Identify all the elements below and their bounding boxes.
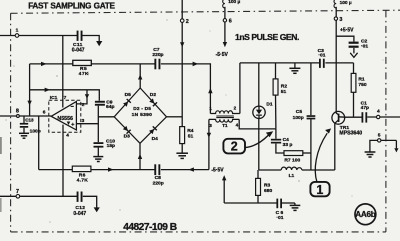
wire C5 to L1 junction	[310, 119, 312, 170]
svg-text:-5·5V: -5·5V	[211, 168, 224, 174]
flow arrow bridge top up	[138, 74, 142, 79]
svg-text:100 µ: 100 µ	[228, 0, 240, 5]
wire input node 8 feed	[0, 115, 51, 117]
wire IC1 pin3 out	[76, 123, 98, 125]
svg-text:0-047: 0-047	[72, 48, 85, 54]
svg-text:-5·5V: -5·5V	[216, 52, 229, 58]
ground C6	[290, 205, 301, 210]
wire node 5 right arrow stub	[395, 140, 397, 148]
flow arrow C8 left	[188, 167, 194, 171]
svg-text:2: 2	[231, 140, 238, 154]
svg-text:N5556: N5556	[57, 116, 73, 122]
svg-text:7: 7	[64, 95, 67, 101]
wire C8 to T1 pin3	[161, 169, 209, 171]
wire bridge right vertex to R4	[167, 116, 183, 118]
svg-text:100p: 100p	[30, 129, 41, 135]
wire feedback lower to C9	[30, 90, 100, 101]
resistor R1	[351, 73, 367, 92]
svg-text:7: 7	[16, 189, 19, 195]
svg-text:1: 1	[209, 106, 212, 111]
svg-text:5: 5	[378, 132, 381, 138]
svg-text:15p: 15p	[107, 143, 115, 149]
capacitor C4	[271, 137, 292, 148]
svg-text:R2: R2	[281, 83, 288, 89]
diode D2	[149, 98, 157, 107]
svg-text:C12: C12	[75, 205, 85, 211]
wire rail top left	[30, 63, 73, 65]
svg-text:D3: D3	[124, 134, 131, 140]
wire node1 down to IC1 pin 7	[62, 36, 64, 108]
svg-text:6: 6	[43, 110, 46, 116]
capacitor C1	[361, 100, 369, 122]
callout arrow 1	[315, 128, 331, 182]
wire R1 stub top	[353, 63, 355, 74]
svg-text:R7 100: R7 100	[284, 158, 300, 164]
svg-text:+5·5V: +5·5V	[340, 28, 354, 34]
diode bridge D2-D5	[114, 88, 166, 143]
callout arrow 2	[245, 131, 273, 147]
svg-text:C7: C7	[153, 47, 160, 53]
supply arrow node5 right down	[394, 148, 398, 152]
resistor R7	[284, 151, 303, 164]
wire minus55 shaft lower	[223, 180, 225, 203]
capacitor C12	[73, 192, 86, 218]
wire node 5 left to ground	[370, 140, 397, 151]
node 2	[180, 19, 188, 25]
node 1	[15, 28, 19, 38]
wire bridge bottom riser	[139, 143, 141, 169]
flow arrow C7 right	[193, 62, 199, 67]
wire C12 to ground arrow	[83, 196, 97, 207]
transformer T1 core	[216, 116, 234, 118]
ground C13 stub	[23, 128, 25, 133]
svg-text:2: 2	[186, 19, 189, 25]
resistor R6	[72, 166, 91, 183]
svg-text:220p: 220p	[153, 181, 164, 187]
wire input node 7 feed	[0, 195, 77, 197]
svg-text:·01: ·01	[276, 215, 283, 221]
wire rail R5 to C7	[91, 63, 155, 65]
flow arrow bridge bottom up	[138, 154, 142, 159]
diode D1 in circle	[253, 101, 273, 118]
svg-text:C8: C8	[155, 175, 162, 181]
node 8	[16, 108, 19, 117]
ground rail	[289, 68, 300, 73]
svg-text:33 p: 33 p	[283, 142, 293, 148]
node 4	[377, 108, 381, 118]
wire bridge top riser	[139, 64, 141, 88]
ground node5	[365, 152, 376, 157]
svg-text:AA6b: AA6b	[355, 210, 375, 219]
ground arrow C12	[94, 207, 100, 212]
svg-text:220p: 220p	[152, 52, 163, 58]
resistor R5	[73, 60, 92, 77]
svg-text:1: 1	[316, 183, 323, 197]
svg-text:4: 4	[66, 133, 69, 139]
wire R3 stub bottom	[257, 195, 259, 203]
node 6	[223, 19, 232, 25]
transformer T1 top winding	[210, 111, 240, 114]
svg-text:R1: R1	[358, 76, 365, 82]
inductor L1	[281, 167, 302, 179]
wire rail to C5	[310, 63, 312, 115]
capacitor C10	[94, 138, 116, 149]
diode D4	[149, 126, 157, 134]
svg-text:4: 4	[236, 122, 239, 127]
svg-text:47K: 47K	[79, 71, 89, 77]
flow arrow pin2 down	[85, 94, 89, 99]
svg-text:MPS3640: MPS3640	[339, 130, 362, 136]
wire D1 to y170 junction	[258, 119, 260, 171]
wire R6 to C8	[91, 169, 155, 171]
wire C4 to R7	[276, 144, 284, 153]
capacitor C7	[152, 47, 163, 70]
svg-text:100p: 100p	[293, 115, 304, 121]
svg-text:·01: ·01	[361, 43, 368, 49]
wire C4 stub	[275, 129, 277, 139]
svg-text:D1: D1	[266, 101, 272, 107]
flow arrow pin3 riser down	[207, 133, 211, 138]
svg-text:IC1: IC1	[50, 95, 58, 101]
capacitor C3	[318, 48, 326, 68]
capacitor C13 stub	[23, 116, 25, 123]
flow arrow rail top	[41, 62, 47, 66]
svg-text:1nS PULSE GEN.: 1nS PULSE GEN.	[235, 32, 299, 42]
ground stub C6 net	[294, 203, 296, 205]
capacitor C6	[276, 199, 284, 221]
flow arrow pin1 riser up	[208, 88, 212, 93]
wire L1 to TR1 emitter riser	[302, 169, 335, 171]
wire TR1 emitter riser	[334, 123, 336, 170]
capacitor C2	[349, 39, 369, 50]
wire node3 vertical	[335, 7, 337, 112]
node 5	[378, 132, 381, 142]
svg-text:680: 680	[264, 188, 272, 194]
transistor TR1 MPS3640	[332, 111, 362, 136]
resistor R4	[180, 127, 194, 144]
svg-text:·01: ·01	[318, 52, 325, 58]
svg-text:D4: D4	[152, 136, 159, 142]
flow arrow lower rail right	[108, 167, 114, 171]
wire bridge left connector	[98, 116, 114, 118]
capacitor C8	[153, 164, 164, 186]
diode D5	[123, 98, 131, 107]
wire R6 feed vertical	[38, 116, 40, 170]
wire C10 to ground	[97, 148, 99, 157]
wire D1 drop	[258, 63, 260, 106]
wire R2 bottom to pin4 net	[275, 95, 277, 129]
wire node 2 vertical	[181, 0, 183, 127]
node 3	[334, 17, 342, 23]
wire y170 D1 junction to L1	[259, 169, 281, 171]
capacitor C13	[20, 117, 41, 134]
svg-text:51: 51	[281, 89, 287, 95]
svg-text:L1: L1	[289, 173, 295, 179]
svg-text:47p: 47p	[361, 105, 369, 111]
wire T1 pin2 riser	[239, 63, 241, 114]
svg-text:C13: C13	[25, 117, 34, 122]
wire TR1 base out to C1	[345, 116, 362, 118]
wire IC1 pin4 drop	[62, 125, 64, 197]
IC1 dashed box	[49, 100, 81, 132]
svg-text:64p: 64p	[106, 104, 114, 110]
ground R4	[176, 153, 188, 158]
svg-text:D2 - D5: D2 - D5	[133, 106, 151, 112]
wire R4 to ground	[181, 144, 183, 153]
node 7	[16, 189, 20, 198]
svg-text:3: 3	[339, 17, 342, 23]
svg-text:6: 6	[229, 19, 232, 25]
wire T1 pin3 riser	[208, 119, 210, 169]
transformer T1 bottom winding	[209, 119, 239, 122]
wire node6 vertical	[224, 7, 226, 42]
supply arrow node6 minus55	[223, 42, 227, 47]
svg-text:D2: D2	[150, 92, 157, 98]
diode D3	[123, 126, 131, 134]
wire R6 feed horizontal	[39, 169, 73, 171]
label D2-D5 1N5390	[132, 106, 153, 118]
wire bottom net right	[281, 202, 295, 204]
callout box 1	[310, 182, 329, 197]
svg-text:2: 2	[234, 105, 237, 110]
svg-text:3: 3	[82, 118, 85, 124]
svg-text:1N 5390: 1N 5390	[132, 112, 153, 118]
wire C11 to ground arrow	[82, 36, 99, 42]
wire IC1 pin2 drop	[76, 90, 87, 104]
svg-text:100 µ: 100 µ	[340, 0, 352, 6]
op-amp IC1 N5556	[51, 102, 76, 131]
wire R2 stub top	[275, 63, 277, 79]
wire R1 bottom to C1 net	[353, 92, 355, 117]
inductor choke 100u node6	[223, 0, 241, 8]
svg-text:4: 4	[377, 108, 380, 114]
supply arrow minus55 lower up	[222, 175, 226, 180]
svg-text:R3: R3	[264, 182, 271, 188]
svg-text:4.7K: 4.7K	[77, 177, 89, 183]
wire feedback/bias vertical	[29, 64, 31, 116]
capacitor C5	[293, 109, 316, 121]
resistor R2	[273, 79, 287, 95]
wire plus rail pin2 to C3	[240, 62, 320, 64]
wire bottom net left	[224, 202, 276, 204]
wire plus rail C3 to R1	[325, 62, 353, 64]
inductor choke 100u node3	[334, 0, 352, 8]
capacitor C9	[95, 99, 115, 110]
stamp AA6b	[355, 204, 376, 225]
ground arrow C11	[96, 41, 102, 46]
wire R7 right to C5 string	[303, 152, 311, 154]
svg-text:R4: R4	[187, 128, 194, 134]
svg-text:1: 1	[16, 28, 19, 34]
wire R3 stub top	[257, 170, 259, 178]
flow arrow bias down	[27, 101, 31, 106]
wire T1 pin4 out	[239, 119, 276, 128]
wire input node 1 feed	[0, 35, 77, 37]
svg-text:0-047: 0-047	[73, 211, 86, 217]
svg-text:51: 51	[188, 133, 194, 139]
svg-text:FAST SAMPLING GATE: FAST SAMPLING GATE	[28, 2, 115, 11]
callout box 2	[223, 139, 245, 154]
wire plus branch to C2	[336, 36, 354, 41]
ground C13	[19, 133, 29, 138]
flow arrow node2 down	[180, 42, 184, 47]
flow arrow feedback lower	[45, 88, 51, 92]
ground C10	[93, 157, 103, 162]
ground chevron stub C2	[353, 48, 355, 54]
svg-text:2: 2	[82, 102, 85, 108]
resistor R3	[256, 178, 273, 195]
wire C1 to node 4	[367, 116, 400, 118]
svg-text:44827-109 B: 44827-109 B	[123, 222, 177, 233]
capacitor C11	[72, 31, 85, 54]
svg-text:C5: C5	[296, 109, 303, 115]
ground chevron C2	[350, 53, 357, 58]
svg-text:8: 8	[16, 108, 19, 114]
svg-text:750: 750	[358, 82, 366, 88]
wire C9 to C10 string	[97, 106, 99, 143]
svg-text:T1: T1	[222, 123, 228, 128]
ground stub rail	[294, 63, 296, 68]
svg-text:D5: D5	[125, 92, 132, 98]
svg-text:3: 3	[209, 123, 212, 128]
wire C7 to T1 pin1	[161, 64, 211, 114]
